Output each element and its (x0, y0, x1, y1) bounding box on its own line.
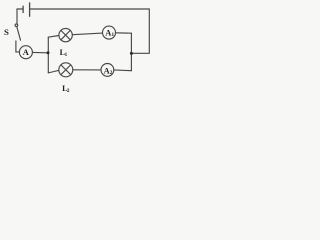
svg-text:A: A (104, 66, 110, 75)
svg-text:S: S (4, 27, 9, 37)
svg-text:2: 2 (67, 88, 70, 94)
svg-text:1: 1 (112, 32, 115, 38)
svg-text:A: A (23, 48, 29, 57)
svg-text:1: 1 (65, 52, 68, 58)
svg-text:2: 2 (110, 70, 113, 76)
svg-text:A: A (105, 28, 111, 37)
